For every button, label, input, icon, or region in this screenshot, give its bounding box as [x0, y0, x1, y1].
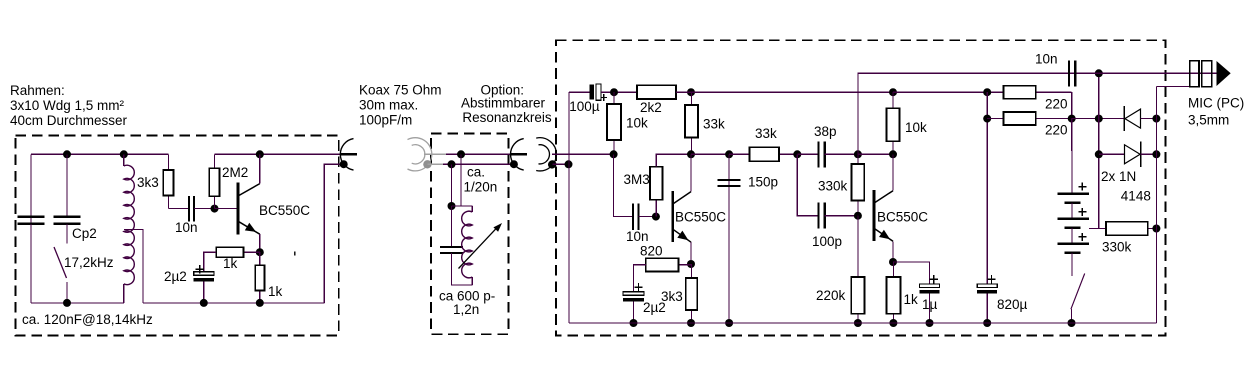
- svg-text:38p: 38p: [814, 124, 837, 139]
- node diode2 right: [1152, 150, 1160, 158]
- wire 2u2 to ground: [203, 282, 205, 303]
- junction collector Q1 rail: [256, 150, 264, 158]
- node jack shield: [548, 160, 556, 168]
- resistor 10k collector stage2: [887, 92, 900, 154]
- svg-text:3k3: 3k3: [661, 289, 683, 304]
- svg-text:1k: 1k: [223, 256, 238, 271]
- wire diode row 2: [1099, 153, 1125, 155]
- inductor L2 tuning: [462, 211, 473, 278]
- label Rahmen line2: [10, 98, 125, 113]
- wire 100p branch: [797, 154, 818, 215]
- wire 820u ground: [986, 294, 988, 323]
- wire C2 to base node: [194, 208, 214, 210]
- arrow variable tuning: [459, 223, 503, 269]
- wire tank feed 2: [451, 164, 453, 206]
- capacitor 10n output: [1069, 60, 1075, 86]
- node emitter Q3: [889, 258, 897, 266]
- label 820: [640, 244, 663, 259]
- label Koax line3: [359, 113, 412, 128]
- capacitor 100p: [818, 203, 824, 229]
- node shield riser: [565, 160, 573, 168]
- wire coil top lead: [123, 154, 125, 166]
- svg-text:MIC (PC): MIC (PC): [1188, 96, 1244, 111]
- wire 220 corner to battery row: [1071, 92, 1073, 118]
- svg-text:33k: 33k: [703, 117, 725, 132]
- junction 220k ground: [854, 319, 862, 327]
- wire base Q1 left: [215, 208, 237, 210]
- label 2u2 stage1: [643, 300, 666, 315]
- svg-text:330k: 330k: [1102, 240, 1132, 255]
- node diode1 right: [1152, 115, 1160, 123]
- junction 2u2 ground main: [630, 319, 638, 327]
- wire 2u2 ground stage1: [633, 301, 635, 323]
- label 10k bias1: [626, 116, 648, 131]
- junction 1k ground left: [256, 299, 264, 307]
- wire diode row 1: [1072, 118, 1125, 120]
- svg-text:33k: 33k: [755, 126, 777, 141]
- capacitor 2u2 stage1: [623, 283, 644, 301]
- svg-text:150p: 150p: [748, 175, 778, 190]
- wire 100u to 2k2 node: [601, 91, 637, 93]
- svg-text:ca.: ca.: [467, 165, 485, 180]
- wire tank top link: [452, 205, 473, 207]
- wire emitter Q3: [892, 241, 894, 262]
- node collector Q3: [889, 150, 897, 158]
- wire gray shield stub: [427, 163, 443, 165]
- label 2u2 left: [164, 269, 187, 284]
- label 3M3: [624, 172, 650, 187]
- wire ground segment amp: [143, 302, 324, 304]
- label 220k: [816, 288, 846, 303]
- wire C1 to ground: [30, 224, 32, 303]
- svg-text:BC550C: BC550C: [877, 210, 928, 225]
- node Cp2 top: [63, 150, 71, 158]
- label 150p: [748, 175, 778, 190]
- label 4148: [1121, 189, 1151, 204]
- label BC550C stage2: [877, 210, 928, 225]
- wire Cp2 to switch: [66, 224, 68, 244]
- label 1k stage2: [904, 292, 919, 307]
- wire 820 to 2u2: [634, 265, 646, 292]
- wire battery tap: [1089, 228, 1099, 230]
- wire 1k to 2u2: [204, 252, 216, 272]
- wire emitter Q1: [259, 234, 261, 252]
- node battery plus: [1068, 115, 1076, 123]
- capacitor Cp2: [54, 217, 81, 224]
- wire base feed down: [614, 154, 633, 216]
- label 10k stage2: [905, 120, 927, 135]
- label Rahmen line1: [10, 83, 65, 98]
- capacitor 820u: [977, 275, 997, 294]
- node output top: [1095, 69, 1103, 77]
- node diode2 left: [1095, 150, 1103, 158]
- capacitor 10n stage1: [633, 203, 639, 229]
- wire collector Q1: [259, 154, 261, 183]
- resistor 2M2: [209, 154, 219, 208]
- label Option line3: [462, 110, 552, 125]
- node V+ 820u: [983, 88, 991, 96]
- node Vfilt: [610, 88, 618, 96]
- resistor 1k emitter stage2: [886, 262, 900, 323]
- wire 100p to base: [825, 215, 858, 217]
- label 10n stage1: [626, 229, 649, 244]
- wire shield to tank: [443, 163, 514, 165]
- wire diode2 right: [1141, 153, 1157, 155]
- switch S2 power blade: [1071, 274, 1085, 310]
- svg-text:1,2n: 1,2n: [453, 302, 479, 317]
- node option shield: [448, 160, 456, 168]
- wire cap branch lower: [452, 253, 473, 285]
- wire emitter Q2 main: [690, 242, 692, 264]
- label 17,2kHz: [64, 255, 114, 270]
- svg-text:Rahmen:: Rahmen:: [10, 83, 65, 98]
- svg-text:10n: 10n: [175, 220, 198, 235]
- node diode1 left: [1095, 115, 1103, 123]
- node base feed Q2: [610, 150, 618, 158]
- svg-text:100p: 100p: [812, 234, 842, 249]
- wire shield riser left box: [324, 164, 343, 303]
- svg-text:820: 820: [640, 244, 663, 259]
- wire V+ rail: [676, 91, 893, 93]
- svg-text:220: 220: [1045, 97, 1068, 112]
- wire battery feed: [1071, 119, 1073, 194]
- resistor 220 upper: [1003, 86, 1071, 99]
- node 38p left: [793, 150, 801, 158]
- svg-text:2k2: 2k2: [640, 100, 662, 115]
- label 330k stage2: [818, 179, 848, 194]
- diode D1 1N4148: [1124, 106, 1140, 131]
- svg-text:ca. 120nF@18,14kHz: ca. 120nF@18,14kHz: [22, 312, 153, 327]
- node tank top: [448, 202, 456, 210]
- label 33k vertical: [703, 117, 725, 132]
- svg-text:220: 220: [1045, 123, 1068, 138]
- node emitter Q1: [256, 248, 264, 256]
- label 3k3 left: [137, 175, 159, 190]
- label ca 120nF: [22, 312, 153, 327]
- svg-text:2x 1N: 2x 1N: [1101, 169, 1136, 184]
- svg-text:3x10 Wdg 1,5 mm²: 3x10 Wdg 1,5 mm²: [10, 98, 125, 113]
- wire switch to ground: [66, 282, 68, 303]
- junction 820u ground: [983, 319, 991, 327]
- wire cap branch upper: [451, 206, 453, 247]
- capacitor 150p: [718, 180, 741, 186]
- label 100p: [812, 234, 842, 249]
- label 10n left: [175, 220, 198, 235]
- node collector Q2 main: [687, 150, 695, 158]
- transistor Q3 BC550C stage2: [874, 190, 893, 241]
- label 2k2: [640, 100, 662, 115]
- connector MIC plug: [1190, 61, 1231, 87]
- resistor 220k: [851, 216, 864, 323]
- label 1k emitter left: [268, 284, 283, 299]
- svg-text:Koax 75 Ohm: Koax 75 Ohm: [359, 83, 442, 98]
- wire 150p branch: [728, 154, 730, 323]
- connector coax plug option box: [510, 139, 527, 171]
- label 2x 1N: [1101, 169, 1136, 184]
- svg-text:100pF/m: 100pF/m: [359, 113, 412, 128]
- label 330k output: [1102, 240, 1132, 255]
- capacitor 38p: [818, 141, 824, 167]
- junction Cp2 ground: [63, 299, 71, 307]
- resistor 10k bias 1: [607, 92, 621, 154]
- resistor 330k output: [1099, 222, 1157, 236]
- wire collector to 150p: [691, 153, 729, 155]
- label Rahmen line3: [10, 113, 128, 128]
- inductor L1 frame antenna: [124, 165, 135, 284]
- frame antenna box: [16, 135, 339, 335]
- resistor 1k emitter left: [255, 252, 264, 303]
- frame option box: [431, 133, 508, 334]
- label 1u: [922, 297, 938, 312]
- svg-text:Resonanzkreis: Resonanzkreis: [462, 110, 552, 125]
- wire option through line: [446, 153, 511, 155]
- battery B1 3 cells: [1058, 183, 1089, 253]
- svg-text:10k: 10k: [905, 120, 927, 135]
- wire 3M3 top link: [656, 154, 691, 166]
- label 3,5mm: [1188, 113, 1229, 128]
- node A stage2 input: [854, 150, 862, 158]
- node base Q3: [854, 212, 862, 220]
- svg-text:1/20n: 1/20n: [464, 179, 498, 194]
- wire ground segment tank: [31, 302, 124, 304]
- label Koax line2: [359, 98, 418, 113]
- diode D2 1N4148: [1125, 142, 1141, 167]
- label Koax line1: [359, 83, 442, 98]
- wire V+ to 220s: [893, 91, 1003, 93]
- resistor 820: [646, 258, 691, 271]
- label 3k3 stage1: [661, 289, 683, 304]
- wire ground rail main: [569, 322, 1156, 324]
- resistor 330k feedback stage2: [852, 154, 865, 215]
- wire switch to ground: [1071, 309, 1073, 323]
- label Option line2: [461, 96, 546, 111]
- wire tank feed 1: [460, 154, 462, 206]
- svg-text:2M2: 2M2: [222, 165, 248, 180]
- wire nodeA riser: [858, 73, 1069, 154]
- svg-text:3M3: 3M3: [624, 172, 650, 187]
- label 220 lower: [1045, 123, 1068, 138]
- stray tick mark: [294, 252, 296, 256]
- label Option line1: [481, 83, 525, 98]
- svg-text:4148: 4148: [1121, 189, 1151, 204]
- capacitor tank 600p-1,2n: [440, 247, 463, 253]
- capacitor 10n left box: [189, 196, 194, 222]
- junction 150p ground: [725, 319, 733, 327]
- node option through: [457, 150, 465, 158]
- label MIC (PC): [1188, 96, 1244, 111]
- wire emitter to 1u: [893, 262, 930, 284]
- wire return riser right: [1155, 86, 1157, 323]
- wire coil hook top: [471, 206, 473, 212]
- wire diode1 right: [1141, 118, 1157, 120]
- wire gray pin stub: [424, 153, 446, 155]
- node 220 lower left: [983, 115, 991, 123]
- svg-text:3,5mm: 3,5mm: [1188, 113, 1229, 128]
- capacitor 100u electrolytic: [590, 84, 608, 101]
- wire rail B: [214, 153, 341, 155]
- capacitor 2u2 left box: [194, 265, 214, 281]
- node 10k2 top: [889, 88, 897, 96]
- svg-text:330k: 330k: [818, 179, 848, 194]
- frame main amplifier box: [556, 40, 1166, 335]
- wire coil tap: [124, 229, 143, 303]
- resistor 33k series: [729, 147, 797, 161]
- resistor 33k collector load: [685, 92, 698, 154]
- wire output rail top: [1069, 72, 1217, 74]
- wire coil bottom lead: [123, 284, 125, 303]
- wire output riser: [1098, 73, 1100, 228]
- wire 3k3 to C2: [168, 208, 189, 210]
- node base Q1 left: [211, 205, 219, 213]
- wire 38p link: [797, 153, 818, 155]
- label 100u: [569, 99, 600, 114]
- wire collector Q2 main: [690, 154, 692, 191]
- svg-text:30m max.: 30m max.: [359, 98, 418, 113]
- label 2M2: [222, 165, 248, 180]
- label 1/20n: [464, 179, 498, 194]
- svg-text:1k: 1k: [268, 284, 283, 299]
- resistor 3M3: [650, 167, 663, 217]
- resistor 2k2: [637, 85, 687, 99]
- wire ground riser / 100u feed: [568, 92, 570, 323]
- wire 820u branch: [986, 92, 988, 284]
- capacitor C1 antenna: [18, 217, 45, 224]
- label 38p: [814, 124, 837, 139]
- wire 1u ground: [929, 294, 931, 323]
- junction 1k ground stage2: [889, 319, 897, 327]
- node 330k right: [1152, 225, 1160, 233]
- node 33k top: [687, 88, 695, 96]
- svg-text:820µ: 820µ: [997, 297, 1028, 312]
- svg-text:BC550C: BC550C: [259, 203, 310, 218]
- svg-text:Cp2: Cp2: [72, 226, 97, 241]
- switch S1 blade: [54, 247, 67, 278]
- label 220 upper: [1045, 97, 1068, 112]
- wire 100u left lead: [569, 91, 589, 93]
- wire collector Q3: [892, 154, 894, 190]
- svg-text:Abstimmbarer: Abstimmbarer: [461, 96, 546, 111]
- wire rail A: [31, 153, 168, 155]
- wire coil hook bottom: [471, 277, 473, 285]
- label ca.: [467, 165, 485, 180]
- svg-text:2µ2: 2µ2: [164, 269, 187, 284]
- transistor Q2 BC550C stage1: [673, 191, 691, 242]
- label 820u: [997, 297, 1028, 312]
- wire jack shield link: [552, 163, 568, 165]
- label ca 600p-: [439, 289, 495, 304]
- node 150p top: [725, 150, 733, 158]
- wire jack pin line: [552, 153, 614, 155]
- svg-text:100µ: 100µ: [569, 99, 600, 114]
- svg-text:10k: 10k: [626, 116, 648, 131]
- junction 2u2 ground left: [200, 299, 208, 307]
- svg-text:BC550C: BC550C: [675, 210, 726, 225]
- svg-text:10n: 10n: [626, 229, 649, 244]
- svg-text:220k: 220k: [816, 288, 846, 303]
- wire rail A top left box: [30, 217, 32, 224]
- wire battery minus: [1071, 253, 1073, 276]
- connector coax plug left box: [340, 139, 357, 171]
- resistor 3k3 left box: [163, 154, 173, 208]
- junction 1u ground: [926, 319, 934, 327]
- svg-text:40cm Durchmesser: 40cm Durchmesser: [10, 113, 128, 128]
- connector coax jack option (gray): [408, 138, 432, 171]
- resistor 1k feedback left: [216, 247, 260, 257]
- svg-text:1k: 1k: [904, 292, 919, 307]
- label 33k series: [755, 126, 777, 141]
- junction switch ground: [1068, 319, 1076, 327]
- label 1,2n: [453, 302, 479, 317]
- transistor Q1 BC550C left box: [238, 183, 260, 235]
- wire 38p to nodeA: [825, 153, 858, 155]
- svg-text:17,2kHz: 17,2kHz: [64, 255, 114, 270]
- label 1k horizontal left: [223, 256, 238, 271]
- node base Q2 main: [652, 213, 660, 221]
- label 10n output: [1035, 52, 1058, 67]
- wire nodeA to collector: [858, 153, 893, 155]
- node emitter Q2 main: [687, 260, 695, 268]
- connector coax jack main box: [536, 138, 556, 171]
- node coil top: [120, 150, 128, 158]
- connector gray jack dot: [423, 160, 431, 168]
- capacitor 1u: [920, 275, 940, 294]
- resistor 220 lower: [987, 112, 1071, 125]
- wire 10n to base: [639, 216, 656, 218]
- wire Cp2 branch upper: [66, 154, 68, 216]
- label Cp2: [72, 226, 97, 241]
- label BC550C left: [259, 203, 310, 218]
- svg-text:3k3: 3k3: [137, 175, 159, 190]
- resistor 3k3 emitter stage1: [686, 264, 698, 323]
- wire sleeve to MIC: [1156, 85, 1189, 87]
- label BC550C stage1: [675, 210, 726, 225]
- wire left branch upper: [30, 154, 32, 216]
- junction 3k3 ground: [687, 319, 695, 327]
- svg-text:10n: 10n: [1035, 52, 1058, 67]
